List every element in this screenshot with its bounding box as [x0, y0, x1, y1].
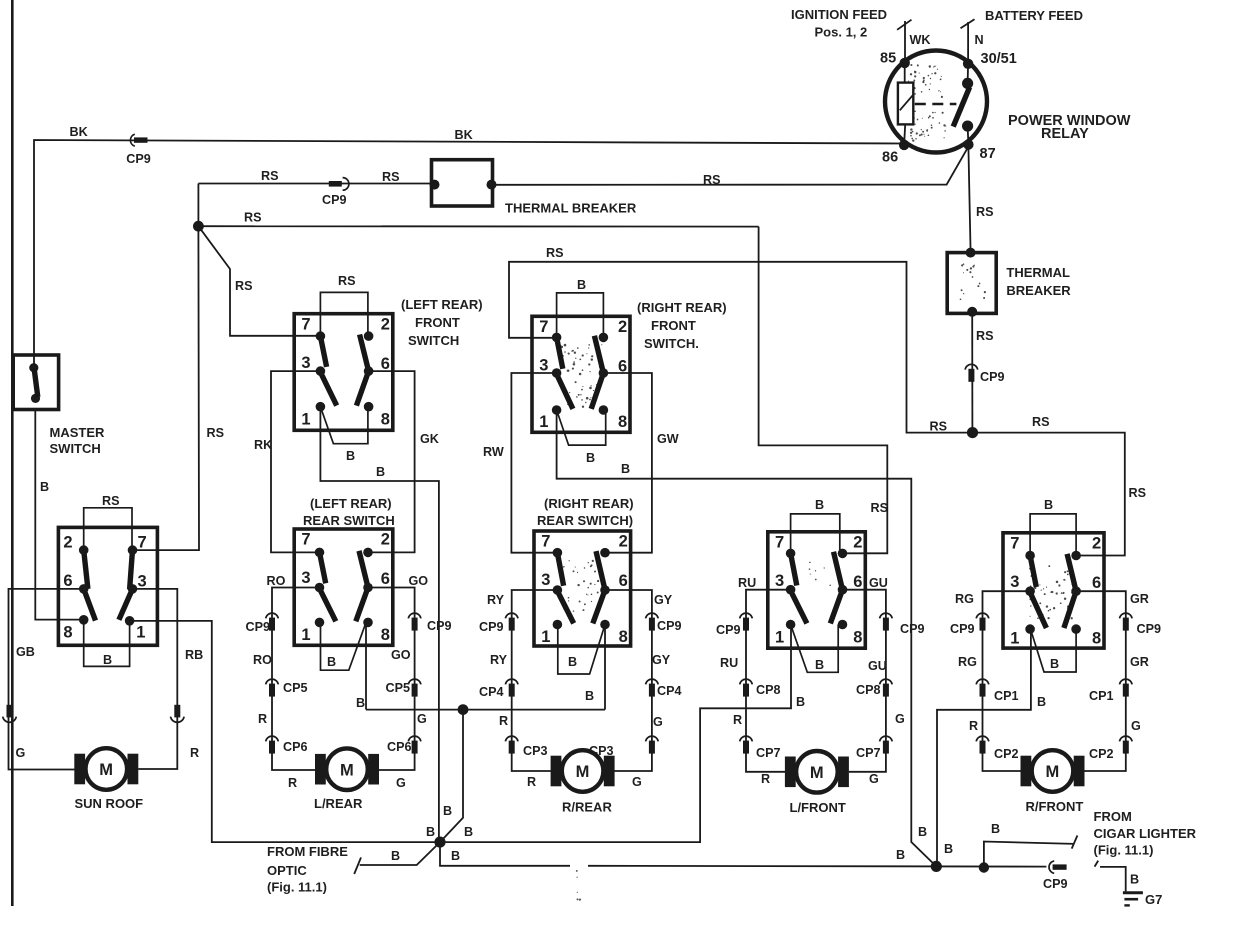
- svg-text:REAR SWITCH: REAR SWITCH: [303, 513, 395, 528]
- svg-text:1: 1: [136, 624, 145, 642]
- svg-text:GR: GR: [1130, 655, 1149, 669]
- wire GW from S3 pin 6 to S5 pin 2: [605, 373, 652, 553]
- svg-text:RU: RU: [738, 576, 756, 590]
- svg-text:B: B: [451, 849, 460, 863]
- switch S2 (LEFT REAR) FRONT SWITCH body: [294, 314, 393, 431]
- svg-text:FROM FIBRE: FROM FIBRE: [267, 844, 348, 859]
- svg-text:GB: GB: [16, 645, 35, 659]
- svg-text:RW: RW: [483, 445, 504, 459]
- svg-text:GY: GY: [652, 653, 671, 667]
- svg-text:3: 3: [775, 572, 784, 590]
- svg-text:7: 7: [301, 531, 310, 549]
- switch S3 (RIGHT REAR) FRONT SWITCH body: [532, 316, 630, 432]
- wire RS diagonal branch to left-rear front switch pin 7: [198, 226, 320, 336]
- wire R from S1 pin 3 to motor M1: [133, 589, 178, 769]
- svg-text:Pos. 1, 2: Pos. 1, 2: [815, 25, 868, 40]
- relay K1 internal dashed link: [915, 103, 957, 106]
- svg-text:8: 8: [619, 628, 628, 646]
- svg-text:85: 85: [880, 51, 896, 67]
- junction B on RS net: [967, 427, 978, 438]
- svg-text:M: M: [810, 764, 824, 782]
- svg-text:3: 3: [1010, 573, 1019, 591]
- relay K1 pin 86: [899, 140, 909, 150]
- wire RS from junction A east to drop at x759: [198, 225, 758, 227]
- connector CP6 on from wire: [408, 736, 421, 741]
- svg-text:3: 3: [301, 569, 310, 587]
- svg-text:FRONT: FRONT: [651, 318, 696, 333]
- wire GB from S1 pin 6 to motor M1: [9, 589, 84, 770]
- svg-text:B: B: [391, 849, 400, 863]
- svg-text:N: N: [975, 33, 984, 47]
- switch S4 (LEFT REAR) REAR SWITCH pin 1: [315, 618, 325, 628]
- connector CP6 on from wire: [266, 736, 279, 741]
- svg-text:B: B: [1130, 873, 1139, 887]
- connector CP9 on from wire: [976, 613, 989, 618]
- svg-text:RB: RB: [185, 648, 203, 662]
- connector CP9 below TB2: [965, 364, 978, 369]
- switch S4 (LEFT REAR) REAR SWITCH pin 2: [363, 548, 373, 558]
- switch S5 (RIGHT REAR) REAR SWITCH pin 3: [553, 585, 563, 595]
- svg-text:B: B: [40, 480, 49, 494]
- wire RS from relay pin 87 down to thermal breaker TB2: [968, 147, 970, 253]
- switch S7 bottom loop B: [1031, 629, 1077, 672]
- svg-text:6: 6: [63, 572, 72, 590]
- svg-text:2: 2: [619, 533, 628, 551]
- switch S2 bottom loop B: [320, 407, 368, 444]
- wire RS drop to sun roof switch pin 7: [133, 226, 200, 550]
- svg-text:REAR SWITCH): REAR SWITCH): [537, 513, 633, 528]
- switch S2 (LEFT REAR) FRONT SWITCH pin 8: [364, 402, 374, 412]
- motor M5 R/FRONT: [1021, 756, 1032, 787]
- connector on R wire: [174, 705, 180, 718]
- switch S5 (RIGHT REAR) REAR SWITCH pin 1: [553, 620, 563, 630]
- svg-text:RS: RS: [338, 274, 356, 288]
- svg-text:B: B: [991, 822, 1000, 836]
- svg-text:G: G: [1131, 719, 1141, 733]
- relay K1 pin 30/51: [963, 59, 973, 69]
- svg-text:6: 6: [381, 570, 390, 588]
- switch S1 top loop RS: [84, 508, 132, 550]
- switch S2 (LEFT REAR) FRONT SWITCH pin 2: [364, 331, 374, 341]
- svg-text:RS: RS: [976, 205, 994, 219]
- svg-text:(LEFT REAR): (LEFT REAR): [310, 496, 392, 511]
- connector CP9 on RS wire: [329, 181, 342, 187]
- wire RW from S3 pin 3 to S5 pin 7: [511, 373, 557, 553]
- svg-text:G7: G7: [1145, 892, 1162, 907]
- svg-text:8: 8: [618, 413, 627, 431]
- svg-text:CP9: CP9: [479, 620, 504, 634]
- svg-text:3: 3: [541, 571, 550, 589]
- svg-text:CP2: CP2: [1089, 747, 1114, 761]
- wire B from junction D to fibre optic feed: [360, 842, 440, 865]
- svg-text:RO: RO: [253, 653, 272, 667]
- switch S2 top loop RS: [320, 292, 368, 336]
- svg-text:87: 87: [980, 146, 996, 162]
- svg-text:R: R: [190, 746, 199, 760]
- wire B upper rail from sun roof to left-front switch pin 1: [130, 621, 791, 842]
- svg-text:RY: RY: [487, 593, 505, 607]
- switch S7 R/FRONT pin 6: [1071, 586, 1081, 596]
- svg-text:B: B: [346, 449, 355, 463]
- svg-text:R: R: [733, 713, 742, 727]
- connector CP9 on B rail near cigar lighter: [1049, 861, 1054, 873]
- svg-text:2: 2: [1092, 535, 1101, 553]
- svg-text:THERMAL BREAKER: THERMAL BREAKER: [505, 201, 637, 216]
- svg-text:1: 1: [541, 628, 550, 646]
- svg-text:RS: RS: [235, 279, 253, 293]
- svg-text:R/FRONT: R/FRONT: [1026, 799, 1084, 814]
- switch S2 (LEFT REAR) FRONT SWITCH pin 1: [316, 402, 326, 412]
- relay K1 coil: [898, 83, 913, 125]
- wire RG from S7 pin 3 to motor M5: [983, 591, 1031, 771]
- switch S3 (RIGHT REAR) FRONT SWITCH pin 6: [599, 368, 609, 378]
- switch S6 L/FRONT pin 6: [838, 585, 848, 595]
- svg-text:WK: WK: [910, 33, 931, 47]
- svg-text:R: R: [761, 772, 770, 786]
- svg-text:B: B: [327, 655, 336, 669]
- switch S3 (RIGHT REAR) FRONT SWITCH pin 8: [599, 405, 609, 415]
- svg-text:GU: GU: [869, 576, 888, 590]
- connector CP8 on from wire: [880, 679, 893, 684]
- motor M1 SUN ROOF: [74, 754, 85, 785]
- switch S4 (LEFT REAR) REAR SWITCH pin 8: [363, 618, 373, 628]
- svg-text:CP4: CP4: [479, 685, 504, 699]
- relay K1 pin 85: [900, 58, 910, 68]
- svg-text:B: B: [426, 825, 435, 839]
- junction D on B net: [434, 837, 445, 848]
- svg-text:8: 8: [853, 629, 862, 647]
- svg-text:B: B: [1050, 657, 1059, 671]
- switch S2 (LEFT REAR) FRONT SWITCH pin 6: [364, 366, 374, 376]
- svg-text:CP9: CP9: [126, 152, 151, 166]
- svg-text:7: 7: [1010, 535, 1019, 553]
- svg-text:(RIGHT REAR): (RIGHT REAR): [544, 496, 634, 511]
- wire GU from S6 pin 6 to motor M4: [843, 590, 886, 772]
- switch S6 top loop B: [791, 514, 840, 554]
- connector CP2 on from wire: [1120, 736, 1133, 741]
- svg-text:G: G: [653, 715, 663, 729]
- svg-text:G: G: [417, 712, 427, 726]
- svg-text:CP9: CP9: [980, 370, 1005, 384]
- svg-text:RS: RS: [1032, 415, 1050, 429]
- svg-text:RS: RS: [976, 329, 994, 343]
- svg-text:MASTER: MASTER: [50, 425, 106, 440]
- switch S1 SUN ROOF pin 7: [128, 545, 138, 555]
- svg-text:RS: RS: [102, 494, 120, 508]
- svg-text:7: 7: [541, 533, 550, 551]
- switch S3 bottom loop B: [557, 410, 606, 445]
- svg-text:RK: RK: [254, 438, 272, 452]
- svg-text:1: 1: [301, 626, 310, 644]
- switch S7 R/FRONT pin 1: [1025, 624, 1035, 634]
- switch S4 (LEFT REAR) REAR SWITCH body: [294, 529, 393, 645]
- svg-text:RY: RY: [490, 653, 508, 667]
- svg-text:2: 2: [381, 531, 390, 549]
- svg-text:CP7: CP7: [756, 746, 781, 760]
- svg-text:B: B: [815, 658, 824, 672]
- wire GY from S5 pin 6 to motor M3: [606, 590, 652, 771]
- svg-text:B: B: [103, 653, 112, 667]
- svg-text:CP9: CP9: [716, 623, 741, 637]
- svg-text:CP8: CP8: [756, 683, 781, 697]
- wire RS from junction B east to right-front switch pin 2: [973, 433, 1125, 556]
- svg-text:R: R: [288, 776, 297, 790]
- switch S4 (LEFT REAR) REAR SWITCH pin 3: [315, 583, 325, 593]
- svg-text:CP1: CP1: [994, 689, 1019, 703]
- svg-text:R: R: [969, 719, 978, 733]
- svg-text:CP9: CP9: [246, 620, 271, 634]
- thermal breaker TB1: [432, 160, 493, 206]
- connector CP3 on from wire: [646, 736, 659, 741]
- svg-text:B: B: [796, 695, 805, 709]
- svg-text:(Fig. 11.1): (Fig. 11.1): [267, 880, 327, 895]
- wire B lower rail: [440, 842, 570, 866]
- svg-text:RELAY: RELAY: [1041, 126, 1089, 142]
- svg-text:6: 6: [619, 572, 628, 590]
- svg-text:RS: RS: [261, 169, 279, 183]
- svg-text:BK: BK: [455, 128, 473, 142]
- svg-text:RS: RS: [703, 173, 721, 187]
- svg-text:(RIGHT REAR): (RIGHT REAR): [637, 300, 727, 315]
- switch S1 bottom loop B: [84, 620, 130, 667]
- switch S5 bottom loop B: [558, 625, 605, 675]
- wire GR from S7 pin 6 to motor M5: [1077, 591, 1126, 771]
- svg-text:GR: GR: [1130, 592, 1149, 606]
- svg-text:SWITCH: SWITCH: [50, 441, 101, 456]
- svg-text:CP1: CP1: [1089, 689, 1114, 703]
- switch S1 SUN ROOF body: [58, 527, 157, 645]
- svg-text:3: 3: [138, 573, 147, 591]
- svg-text:CP9: CP9: [657, 619, 682, 633]
- svg-text:G: G: [16, 746, 26, 760]
- wire GK from S2 pin 6 to S4 pin 2: [368, 371, 415, 552]
- connector CP9 on from wire: [740, 613, 753, 618]
- switch S6 L/FRONT pin 7: [786, 549, 796, 559]
- wire RO from S4 pin 3 to motor M2: [272, 588, 320, 771]
- switch S1 SUN ROOF pin 2: [79, 545, 89, 555]
- switch S3 (RIGHT REAR) FRONT SWITCH pin 2: [599, 333, 609, 343]
- svg-text:B: B: [577, 278, 586, 292]
- svg-text:G: G: [396, 776, 406, 790]
- svg-text:CP2: CP2: [994, 747, 1019, 761]
- switch S4 (LEFT REAR) REAR SWITCH pin 7: [315, 548, 325, 558]
- wire RS from junction B west and down to right-rear front switch pin 7: [509, 262, 973, 433]
- svg-text:RS: RS: [871, 501, 889, 515]
- switch S6 L/FRONT pin 8: [838, 620, 848, 630]
- connector CP9 on BK wire: [130, 134, 134, 146]
- switch S5 (RIGHT REAR) REAR SWITCH pin 8: [600, 620, 610, 630]
- switch S3 (RIGHT REAR) FRONT SWITCH pin 7: [552, 333, 562, 343]
- switch S7 R/FRONT pin 8: [1071, 624, 1081, 634]
- svg-text:6: 6: [853, 573, 862, 591]
- wire RS riser to junction A: [197, 184, 199, 227]
- svg-text:B: B: [621, 462, 630, 476]
- switch S5 (RIGHT REAR) REAR SWITCH pin 7: [553, 548, 563, 558]
- switch S1 SUN ROOF pin 3: [128, 584, 138, 594]
- junction E on B net: [931, 861, 942, 872]
- wire B from junction C down to junction D: [440, 710, 463, 843]
- switch S3 (RIGHT REAR) FRONT SWITCH pin 3: [552, 368, 562, 378]
- svg-text:GW: GW: [657, 432, 679, 446]
- svg-text:2: 2: [853, 534, 862, 552]
- switch S1 SUN ROOF pin 1: [125, 616, 135, 626]
- svg-text:CIGAR LIGHTER: CIGAR LIGHTER: [1094, 826, 1197, 841]
- wire RK from S2 pin 3 to S4 pin 7: [271, 371, 320, 552]
- svg-text:CP9: CP9: [950, 622, 975, 636]
- svg-text:G: G: [632, 775, 642, 789]
- svg-text:8: 8: [381, 411, 390, 429]
- wire B rail between rear switches with junction C branch: [366, 709, 605, 711]
- connector CP1 on from wire: [1120, 679, 1133, 684]
- svg-text:7: 7: [301, 315, 310, 333]
- motor M4 L/FRONT: [785, 757, 796, 788]
- svg-text:SUN ROOF: SUN ROOF: [75, 796, 144, 811]
- svg-text:B: B: [896, 848, 905, 862]
- svg-text:30/51: 30/51: [981, 51, 1017, 67]
- svg-text:RG: RG: [958, 655, 977, 669]
- connector CP9 on from wire: [266, 613, 279, 618]
- wire B from S2 pin 1 down to junction D: [320, 407, 439, 842]
- svg-text:CP9: CP9: [322, 193, 347, 207]
- wire RY from S5 pin 3 to motor M3: [512, 590, 557, 771]
- svg-text:1: 1: [539, 413, 548, 431]
- svg-text:(LEFT REAR): (LEFT REAR): [401, 297, 483, 312]
- switch S6 L/FRONT body: [768, 532, 866, 648]
- svg-text:CP9: CP9: [1043, 877, 1068, 891]
- svg-text:2: 2: [618, 318, 627, 336]
- connector CP7 on from wire: [740, 736, 753, 741]
- svg-text:R: R: [499, 714, 508, 728]
- switch S6 L/FRONT pin 3: [786, 585, 796, 595]
- svg-text:SWITCH.: SWITCH.: [644, 336, 699, 351]
- svg-text:6: 6: [381, 355, 390, 373]
- svg-text:8: 8: [1092, 630, 1101, 648]
- connector CP3 on from wire: [505, 736, 518, 741]
- connector CP5 on from wire: [408, 679, 421, 684]
- svg-text:OPTIC: OPTIC: [267, 863, 307, 878]
- svg-text:CP6: CP6: [283, 740, 308, 754]
- svg-text:GO: GO: [391, 648, 411, 662]
- wire BK from relay pin 86 to master switch: [34, 140, 904, 368]
- svg-text:M: M: [576, 763, 590, 781]
- connector CP4 on from wire: [646, 679, 659, 684]
- relay K1 coil internal wires: [904, 63, 906, 84]
- wire B from S3 pin 1 down across to junction E: [557, 410, 937, 866]
- connector CP9 on from wire: [646, 613, 659, 618]
- switch S7 R/FRONT pin 3: [1025, 586, 1035, 596]
- wire N battery feed stub: [967, 22, 969, 64]
- svg-text:CP7: CP7: [856, 746, 881, 760]
- svg-text:2: 2: [63, 533, 72, 551]
- svg-text:THERMAL: THERMAL: [1006, 265, 1070, 280]
- wire RS from junction A to thermal breaker TB1: [198, 183, 431, 185]
- svg-text:RS: RS: [244, 211, 262, 225]
- svg-text:GY: GY: [654, 593, 673, 607]
- svg-text:B: B: [1037, 695, 1046, 709]
- junction F on B net: [979, 862, 989, 872]
- switch S3 top loop B: [557, 293, 604, 338]
- relay K1 pin 87: [963, 139, 973, 149]
- svg-text:CP4: CP4: [657, 684, 682, 698]
- svg-text:L/FRONT: L/FRONT: [790, 800, 846, 815]
- svg-text:7: 7: [138, 533, 147, 551]
- svg-text:B: B: [464, 825, 473, 839]
- svg-text:RU: RU: [720, 656, 738, 670]
- switch S5 (RIGHT REAR) REAR SWITCH body: [534, 531, 631, 646]
- svg-text:L/REAR: L/REAR: [314, 796, 363, 811]
- wire B from R/FRONT switch pin 1 to junction E: [937, 629, 1031, 866]
- switch S7 R/FRONT pin 2: [1071, 551, 1081, 561]
- wire RS drop feeding left-front switch pin 2: [759, 227, 888, 554]
- svg-text:M: M: [1046, 763, 1060, 781]
- wire B from S4 pin 8 down to B rail: [365, 622, 367, 709]
- switch S7 R/FRONT body: [1003, 533, 1104, 648]
- svg-text:CP8: CP8: [856, 683, 881, 697]
- wire B from S5 pin 8 down to B rail: [604, 625, 606, 710]
- switch S2 (LEFT REAR) FRONT SWITCH pin 3: [316, 366, 326, 376]
- svg-text:CP9: CP9: [1137, 622, 1162, 636]
- svg-text:8: 8: [381, 626, 390, 644]
- svg-text:B: B: [944, 842, 953, 856]
- relay K1 POWER WINDOW RELAY body: [885, 51, 987, 153]
- svg-text:CP6: CP6: [387, 740, 412, 754]
- svg-text:CP5: CP5: [283, 681, 308, 695]
- svg-text:BATTERY FEED: BATTERY FEED: [985, 8, 1083, 23]
- motor M3 R/REAR: [551, 756, 562, 787]
- junction C on B net: [458, 704, 469, 715]
- motor M2 L/REAR: [315, 754, 326, 785]
- svg-text:M: M: [99, 761, 113, 779]
- switch S6 bottom loop B: [791, 625, 839, 673]
- switch S5 (RIGHT REAR) REAR SWITCH pin 2: [600, 548, 610, 558]
- svg-text:IGNITION FEED: IGNITION FEED: [791, 7, 887, 22]
- svg-text:7: 7: [775, 534, 784, 552]
- svg-text:3: 3: [539, 357, 548, 375]
- wire B from CP9 to ground G7: [1100, 867, 1126, 892]
- connector CP2 on from wire: [976, 736, 989, 741]
- svg-text:RS: RS: [382, 170, 400, 184]
- wire RS from TB1 to relay pin 87: [494, 147, 969, 185]
- svg-text:1: 1: [1010, 630, 1019, 648]
- wire RU from S6 pin 3 to motor M4: [746, 590, 791, 772]
- svg-text:B: B: [443, 804, 452, 818]
- svg-text:GO: GO: [409, 574, 429, 588]
- svg-text:CP3: CP3: [523, 744, 548, 758]
- svg-text:SWITCH: SWITCH: [408, 333, 459, 348]
- svg-text:FROM: FROM: [1094, 809, 1132, 824]
- ground G7: [1123, 891, 1143, 894]
- svg-text:7: 7: [539, 318, 548, 336]
- svg-text:FRONT: FRONT: [415, 315, 460, 330]
- svg-text:3: 3: [301, 354, 310, 372]
- svg-text:GK: GK: [420, 432, 439, 446]
- svg-text:1: 1: [775, 629, 784, 647]
- connector on GB wire: [7, 705, 13, 718]
- switch S2 (LEFT REAR) FRONT SWITCH pin 7: [316, 331, 326, 341]
- switch MASTER SWITCH: [13, 355, 58, 410]
- wire RS from TB2 down to junction B: [971, 312, 973, 433]
- relay K1 contact lever: [962, 78, 973, 89]
- connector CP4 on from wire: [505, 679, 518, 684]
- svg-text:RS: RS: [207, 426, 225, 440]
- svg-text:CP9: CP9: [900, 622, 925, 636]
- wire WK ignition feed stub: [904, 21, 906, 63]
- svg-text:B: B: [815, 498, 824, 512]
- switch S5 (RIGHT REAR) REAR SWITCH pin 6: [600, 585, 610, 595]
- switch S6 L/FRONT pin 1: [786, 620, 796, 630]
- connector CP1 on from wire: [976, 679, 989, 684]
- junction A on RS net: [193, 221, 204, 232]
